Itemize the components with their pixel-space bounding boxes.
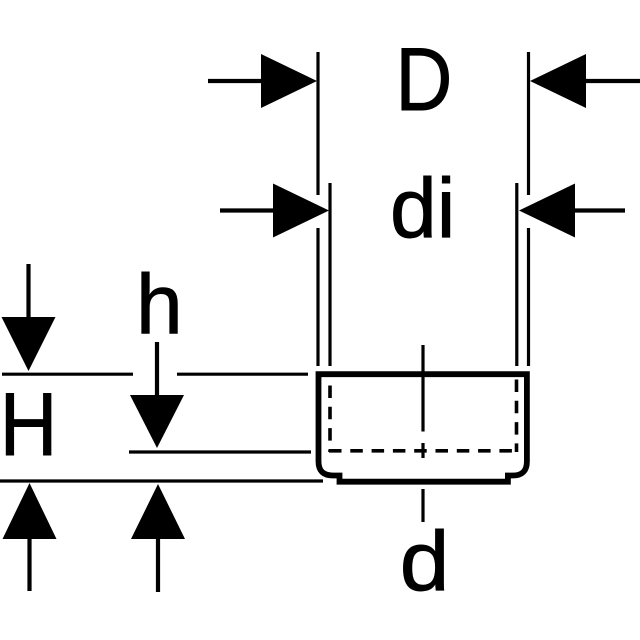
svg-text:h: h [136,257,183,351]
svg-text:di: di [390,161,455,255]
svg-text:H: H [0,374,57,474]
svg-text:D: D [395,30,452,129]
svg-text:d: d [400,514,450,608]
